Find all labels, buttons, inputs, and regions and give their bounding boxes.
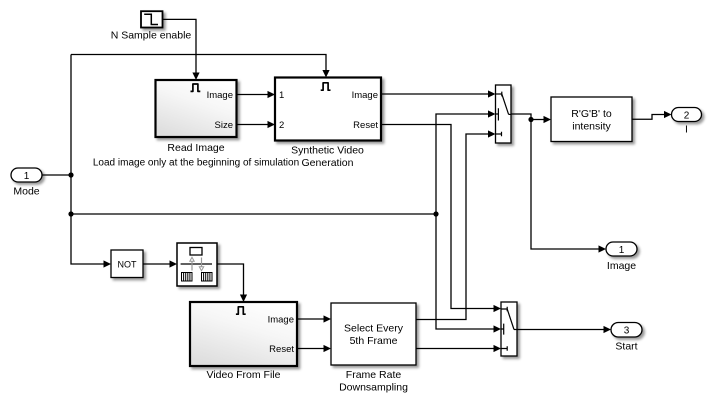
switch Switch1 xyxy=(496,85,512,143)
wire Synthetic Video Image to Switch1 input 1 xyxy=(381,90,496,97)
wire Read Image Size to Synthetic Video in2 xyxy=(237,121,276,128)
svg-text:NOT: NOT xyxy=(118,259,138,269)
svg-text:Reset: Reset xyxy=(353,120,378,131)
svg-text:5th Frame: 5th Frame xyxy=(350,335,398,347)
svg-text:Read Image: Read Image xyxy=(167,142,224,154)
svg-text:Mode: Mode xyxy=(13,186,39,198)
svg-text:3: 3 xyxy=(624,326,630,337)
junction dot Mode trunk at y214 xyxy=(68,211,73,216)
wire Mode control to Switch2 input 2 xyxy=(436,214,501,333)
block Read Image xyxy=(156,80,237,137)
port 2 I xyxy=(672,108,702,122)
junction dot Mode trunk at y175 xyxy=(68,172,73,177)
wire Switch1 output down to port Image xyxy=(531,120,606,253)
svg-text:Generation: Generation xyxy=(302,157,354,169)
svg-text:Start: Start xyxy=(615,341,637,353)
port 1 Mode xyxy=(11,168,42,182)
block Video From File xyxy=(190,302,297,366)
wire Switch1 output to RGB block xyxy=(511,114,551,123)
svg-text:Image: Image xyxy=(352,90,378,101)
block NOT xyxy=(111,250,143,278)
port 1 Image out xyxy=(606,242,637,256)
junction dot switch1 output xyxy=(528,117,533,122)
svg-text:1: 1 xyxy=(279,90,284,101)
wire N Sample enable to Read Image enable xyxy=(163,19,200,80)
svg-text:Size: Size xyxy=(215,120,233,131)
svg-text:intensity: intensity xyxy=(572,120,611,132)
svg-text:R'G'B' to: R'G'B' to xyxy=(571,108,612,120)
wire Select out1 up to Switch1 input 3 xyxy=(416,130,496,319)
svg-text:N Sample enable: N Sample enable xyxy=(111,30,192,42)
block rate transition icon xyxy=(177,243,217,286)
wire RGB block to port I xyxy=(632,111,672,119)
svg-text:Downsampling: Downsampling xyxy=(339,381,408,393)
block N Sample enable xyxy=(141,11,163,27)
wire Mode horizontal y214 xyxy=(71,213,436,215)
wire Mode control to Switch1 input 2 xyxy=(436,110,496,214)
svg-text:Synthetic Video: Synthetic Video xyxy=(291,145,364,157)
block RGB to intensity xyxy=(551,97,632,142)
wire Mode port to trunk xyxy=(42,174,71,176)
wire Select out2 to Switch2 input 3 xyxy=(416,345,501,352)
junction dot x436 y214 xyxy=(433,211,438,216)
wire Mode trunk vertical xyxy=(71,55,105,265)
svg-text:Image: Image xyxy=(607,260,636,272)
switch Switch2 xyxy=(501,302,517,356)
wire Switch2 output to port Start xyxy=(517,326,611,333)
wire rate block to Video From File enable xyxy=(217,264,247,302)
wire Mode top line to Synthetic Video enable xyxy=(71,55,330,78)
svg-text:Reset: Reset xyxy=(269,344,294,355)
svg-text:Image: Image xyxy=(207,90,233,101)
wire NOT to rate block xyxy=(143,260,177,267)
svg-text:Frame Rate: Frame Rate xyxy=(346,369,402,381)
svg-text:I: I xyxy=(685,123,688,135)
svg-text:1: 1 xyxy=(24,171,30,182)
svg-text:2: 2 xyxy=(684,110,690,121)
svg-text:Image: Image xyxy=(268,314,294,325)
block Select Every 5th Frame xyxy=(331,303,416,365)
block Synthetic Video Generation xyxy=(275,78,381,141)
svg-text:2: 2 xyxy=(279,120,284,131)
wire Video From File Reset to Select in2 xyxy=(297,345,331,352)
svg-text:Load image only at the beginni: Load image only at the beginning of simu… xyxy=(93,158,299,169)
wire Synthetic Video Reset to Switch2 input 1 xyxy=(381,125,501,313)
wire Read Image Image to Synthetic Video in1 xyxy=(237,91,276,98)
port 3 Start xyxy=(611,323,642,338)
svg-text:Select Every: Select Every xyxy=(344,323,404,335)
arrow into NOT xyxy=(104,260,112,267)
svg-text:1: 1 xyxy=(619,245,625,256)
wire Video From File Image to Select in1 xyxy=(297,315,331,322)
svg-text:Video From File: Video From File xyxy=(207,369,281,381)
